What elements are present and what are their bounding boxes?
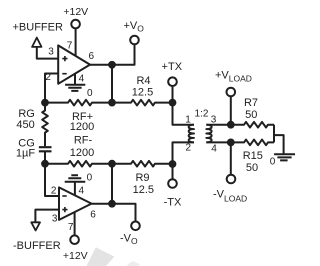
wire -TX stem: [172, 164, 174, 179]
wire node C vertical: [111, 164, 113, 204]
junction +VLOAD node: [227, 121, 235, 129]
svg-text:2: 2: [186, 143, 192, 154]
svg-text:3: 3: [52, 214, 58, 225]
wire U1 pin 2 to node A: [45, 74, 58, 103]
svg-text:12.5: 12.5: [133, 184, 154, 196]
wire +TX stem: [172, 86, 174, 103]
wire U1 pin 4 stem: [74, 72, 76, 85]
junction node C: [41, 160, 49, 168]
terminal -TX: [168, 179, 177, 188]
capacitor CG: [39, 147, 52, 151]
transformer T1 primary winding: [189, 125, 194, 143]
svg-text:450: 450: [16, 119, 34, 131]
svg-text:50: 50: [246, 162, 258, 174]
svg-text:R7: R7: [244, 97, 258, 109]
ground U1 pin4: [65, 85, 85, 91]
wire U2 pin 7 stem: [74, 211, 76, 235]
op-amp U2 plus input mark: [62, 207, 67, 212]
input triangle +BUFFER: [32, 38, 41, 47]
wire -VO tap: [112, 204, 136, 222]
transformer T1 secondary winding: [206, 125, 211, 143]
svg-text:1200: 1200: [70, 121, 94, 133]
wire +VO tap: [112, 45, 135, 65]
svg-text:0: 0: [270, 156, 276, 167]
svg-text:1200: 1200: [70, 147, 94, 159]
svg-text:-VO: -VO: [120, 233, 138, 247]
svg-text:+12V: +12V: [63, 6, 88, 18]
svg-text:-VLOAD: -VLOAD: [213, 189, 247, 204]
op-amp U2: [59, 187, 92, 220]
terminal +VO: [130, 36, 139, 45]
junction RF+/R4: [108, 99, 116, 107]
terminal +12V bottom: [70, 235, 79, 244]
wire transformer primary top lead: [173, 103, 195, 125]
svg-text:6: 6: [90, 209, 96, 220]
svg-text:2: 2: [51, 186, 57, 197]
terminal +TX: [168, 77, 177, 86]
junction node A: [41, 99, 49, 107]
junction -VLOAD node: [227, 139, 235, 147]
svg-text:1: 1: [185, 115, 191, 126]
svg-text:1µF: 1µF: [16, 148, 35, 160]
terminal -VLOAD: [227, 175, 236, 184]
resistor RF+: [45, 100, 112, 106]
wire U1 output: [90, 64, 112, 66]
svg-text:12.5: 12.5: [132, 87, 153, 99]
resistor R15: [231, 140, 274, 146]
ground U2 pin4 (inverted): [65, 175, 86, 181]
svg-text:RF-: RF-: [74, 135, 93, 147]
wire secondary top lead: [206, 124, 231, 126]
resistor RF-: [45, 161, 112, 167]
svg-text:R4: R4: [136, 75, 150, 87]
input triangle -BUFFER: [31, 222, 40, 230]
wire U2 pin 4 stem: [74, 182, 76, 197]
terminal -VO: [131, 222, 140, 231]
svg-text:7: 7: [68, 222, 74, 233]
op-amp U1: [58, 45, 90, 83]
svg-text:6: 6: [89, 51, 95, 62]
wire U2 pin 3 to -BUFFER: [35, 210, 59, 223]
wire U2 output: [92, 203, 113, 205]
resistor RG: [42, 103, 48, 147]
svg-text:-BUFFER: -BUFFER: [13, 240, 61, 252]
svg-text:4: 4: [211, 144, 217, 155]
svg-text:+VO: +VO: [124, 20, 145, 34]
wire CG to node C: [44, 152, 46, 164]
wire node B vertical: [111, 65, 113, 103]
svg-text:0: 0: [87, 173, 93, 184]
ground right (load): [274, 154, 295, 160]
svg-text:3: 3: [48, 47, 54, 58]
junction RF-/R9: [108, 160, 116, 168]
terminal +VLOAD: [227, 88, 236, 97]
svg-text:+BUFFER: +BUFFER: [13, 22, 63, 34]
svg-text:4: 4: [79, 186, 85, 197]
op-amp U1 minus input mark: [62, 73, 66, 75]
resistor R7: [231, 122, 274, 128]
wire U2 pin 2: [45, 164, 59, 196]
svg-text:R9: R9: [135, 172, 149, 184]
wire +12V stem to U1 pin 7: [75, 29, 77, 56]
junction -TX node: [169, 160, 177, 168]
svg-text:-TX: -TX: [164, 196, 182, 208]
svg-text:+VLOAD: +VLOAD: [215, 69, 252, 83]
svg-text:1:2: 1:2: [195, 109, 209, 120]
wire transformer primary bottom lead: [173, 142, 195, 164]
junction +TX node: [169, 99, 177, 107]
svg-text:+12V: +12V: [63, 250, 88, 262]
svg-text:7: 7: [67, 41, 73, 52]
svg-text:4: 4: [79, 73, 85, 84]
svg-text:+TX: +TX: [162, 61, 183, 73]
op-amp U2 minus input mark: [62, 195, 66, 197]
resistor R4: [112, 100, 173, 106]
watermark band: [87, 247, 141, 266]
svg-text:3: 3: [211, 115, 217, 126]
wire +BUFFER to U1 pin 3: [37, 47, 58, 59]
svg-text:R15: R15: [243, 150, 263, 162]
resistor R9: [112, 161, 173, 167]
svg-text:0: 0: [87, 88, 93, 99]
wire +VLOAD stem: [230, 96, 232, 124]
junction U2 out: [108, 200, 116, 208]
op-amp U1 plus input mark: [62, 56, 67, 61]
terminal +12V top: [71, 20, 80, 29]
wire -VLOAD stem: [230, 142, 232, 174]
wire to right ground: [274, 135, 284, 154]
svg-text:50: 50: [245, 109, 257, 121]
wire R7-R15 right join: [273, 125, 275, 143]
junction U1 out: [108, 61, 116, 69]
wire secondary bottom lead: [206, 141, 231, 143]
svg-text:2: 2: [45, 72, 51, 83]
